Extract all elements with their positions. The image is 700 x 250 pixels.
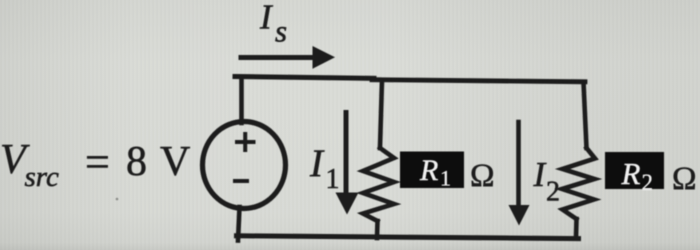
wire: source branch lower: [238, 207, 240, 241]
wire: bottom rail: [237, 236, 579, 239]
resistor R1: [363, 148, 394, 221]
svg-text:1: 1: [440, 166, 451, 191]
svg-text:2: 2: [642, 170, 654, 195]
current arrow I2: [516, 122, 521, 207]
current arrow I1: [344, 113, 349, 197]
plus terminal: [237, 140, 254, 144]
voltage source V_src: [203, 122, 286, 209]
wire: source branch upper: [239, 78, 244, 124]
svg-text:R: R: [419, 154, 438, 187]
wire: top right segment: [372, 80, 585, 82]
resistor R2: [562, 148, 595, 219]
svg-text:Ω: Ω: [672, 161, 697, 197]
wire: R1 branch lower: [375, 221, 380, 238]
current arrow Is: [241, 55, 316, 60]
svg-text:s: s: [275, 14, 287, 49]
svg-text:src: src: [25, 161, 59, 193]
wire: R2 branch upper: [584, 82, 587, 148]
svg-text:V: V: [160, 139, 190, 185]
svg-text:Ω: Ω: [470, 158, 495, 194]
svg-text:=: =: [85, 138, 110, 187]
label box R1: [400, 152, 464, 189]
wire: R1 branch upper: [380, 80, 382, 148]
svg-text:I: I: [309, 142, 325, 185]
wire: R2 branch lower: [574, 219, 579, 238]
svg-text:2: 2: [546, 177, 560, 208]
svg-text:8: 8: [126, 139, 147, 185]
minus terminal: [235, 179, 247, 183]
label box R2: [605, 152, 664, 189]
svg-text:R: R: [621, 156, 641, 191]
svg-text:1: 1: [326, 164, 340, 195]
speck: [116, 198, 119, 201]
wire: top left segment: [235, 77, 374, 79]
